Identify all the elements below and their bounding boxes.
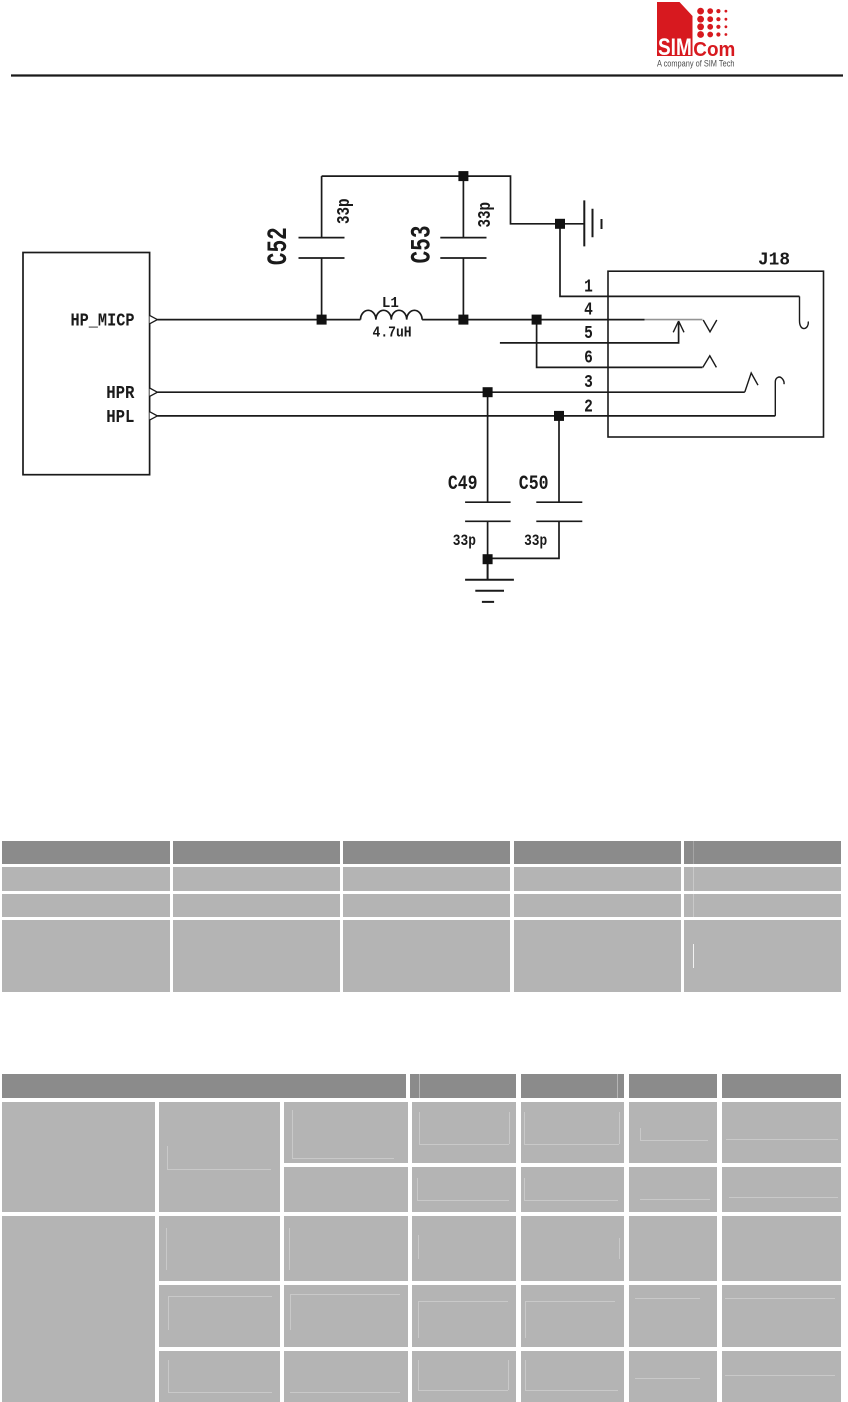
arrow head pin 5 bbox=[673, 321, 684, 332]
capacitor C50 plates bbox=[536, 502, 582, 521]
contact caret pin 6 bbox=[703, 356, 717, 368]
junction HPL C50 bbox=[554, 411, 564, 421]
junction top rail C53 bbox=[458, 171, 468, 181]
wire HPR to pin 3 bbox=[157, 391, 744, 393]
svg-text:HP_MICP: HP_MICP bbox=[71, 312, 135, 332]
junction ground branch bbox=[555, 219, 565, 229]
capacitor C52 lead lower bbox=[321, 258, 323, 320]
svg-text:C49: C49 bbox=[448, 473, 478, 496]
capacitor C52 lead upper bbox=[321, 176, 323, 238]
svg-text:C52: C52 bbox=[264, 227, 295, 265]
svg-text:SIM: SIM bbox=[658, 34, 692, 61]
module block U (audio IC) bbox=[23, 253, 150, 475]
junction C53/HP_MICP bbox=[458, 315, 468, 325]
pin 1 sleeve hook bbox=[800, 296, 809, 328]
svg-text:4: 4 bbox=[584, 301, 593, 321]
wire top rail bbox=[322, 176, 585, 224]
capacitor C49 lead upper bbox=[487, 392, 489, 502]
connector J18 box bbox=[608, 271, 824, 437]
svg-text:33p: 33p bbox=[335, 198, 355, 224]
svg-text:3: 3 bbox=[584, 373, 593, 393]
junction C52/HP_MICP bbox=[317, 315, 327, 325]
wire pin 4 gray contact extension bbox=[645, 319, 703, 321]
capacitor C53 lead upper bbox=[462, 176, 464, 238]
svg-text:33p: 33p bbox=[453, 532, 476, 550]
capacitor C50 lead upper bbox=[558, 416, 560, 502]
ground top right bbox=[584, 200, 601, 246]
wire pin 5 detect bbox=[500, 323, 679, 343]
header rule bbox=[11, 74, 843, 76]
wire HPL to pin 2 bbox=[157, 415, 775, 417]
pin HPR triangle bbox=[150, 388, 158, 396]
pin HP_MICP triangle bbox=[150, 315, 158, 323]
SIMCom logo dot grid bbox=[697, 8, 727, 38]
junction pin6 branch bbox=[532, 315, 542, 325]
svg-text:5: 5 bbox=[584, 324, 593, 344]
svg-text:L1: L1 bbox=[382, 295, 399, 312]
wire pin 6 branch bbox=[537, 320, 703, 368]
capacitor C53 lead lower bbox=[462, 258, 464, 320]
wire ground branch down to pin 1 bbox=[560, 224, 800, 297]
capacitor C49 lead lower bbox=[487, 521, 489, 559]
junction C49 C50 ground bbox=[483, 554, 493, 564]
ground bottom bbox=[465, 559, 514, 602]
contact caret pin 3 bbox=[745, 373, 758, 392]
svg-text:6: 6 bbox=[584, 349, 593, 369]
svg-text:1: 1 bbox=[584, 277, 593, 297]
capacitor C50 lead lower and join bbox=[488, 521, 559, 558]
svg-text:33p: 33p bbox=[524, 532, 547, 550]
capacitor C49 plates bbox=[465, 502, 511, 521]
svg-text:2: 2 bbox=[584, 398, 593, 418]
pin HPL triangle bbox=[150, 412, 158, 420]
table 2 bbox=[2, 1074, 406, 1098]
table remnant marks bbox=[693, 841, 694, 865]
svg-text:C53: C53 bbox=[408, 226, 439, 264]
wire HP_MICP to L1 bbox=[157, 319, 360, 321]
svg-text:A company of SIM Tech: A company of SIM Tech bbox=[657, 59, 735, 69]
schematic + logo SVG bbox=[0, 0, 848, 840]
inductor L1 bbox=[361, 310, 423, 319]
svg-text:HPL: HPL bbox=[106, 408, 134, 428]
pin 2 tip hook bbox=[775, 377, 784, 416]
wire L1 to connector pin 4 bbox=[422, 319, 644, 321]
capacitor C53 plates bbox=[440, 238, 486, 258]
table 1 bbox=[2, 841, 170, 865]
contact V pin 4 bbox=[703, 320, 717, 332]
svg-text:Com: Com bbox=[693, 38, 735, 61]
junction HPR C49 bbox=[483, 387, 493, 397]
capacitor C52 plates bbox=[299, 238, 345, 258]
SIMCom logo card bbox=[657, 2, 693, 56]
svg-text:J18: J18 bbox=[758, 251, 790, 271]
svg-text:33p: 33p bbox=[476, 202, 496, 228]
svg-text:C50: C50 bbox=[519, 473, 549, 496]
svg-text:HPR: HPR bbox=[106, 384, 134, 404]
svg-text:4.7uH: 4.7uH bbox=[373, 325, 412, 342]
